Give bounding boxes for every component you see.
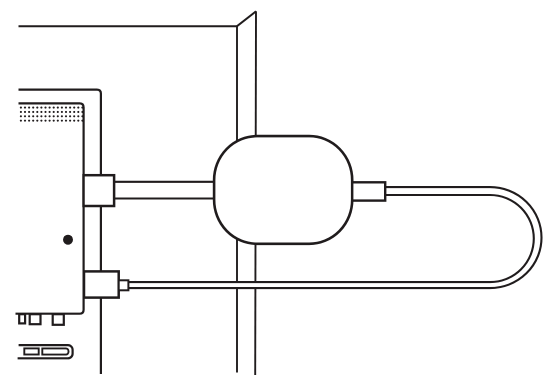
dongle cable connector — [352, 182, 385, 200]
dongle body — [214, 136, 352, 244]
tabletop edge line — [19, 25, 238, 27]
USB power plug — [119, 280, 129, 290]
vent dot grid — [20, 107, 84, 122]
TV lower USB port — [84, 271, 119, 297]
stand base right slot — [42, 348, 68, 354]
TV back panel edge — [16, 103, 84, 313]
screw hole dot — [63, 235, 73, 245]
stand base outline — [18, 345, 73, 358]
cabinet panel left edge — [236, 26, 238, 372]
power cable loop (tube with U-turn) — [127, 187, 542, 288]
stand base left slot — [24, 348, 38, 354]
TV upper HDMI port — [84, 175, 115, 206]
TV outer edge — [19, 90, 101, 374]
bottom tab 1 — [19, 314, 25, 323]
HDMI extender stem — [112, 182, 222, 199]
bottom tab 3 — [53, 314, 64, 325]
bottom tab 2 — [30, 314, 41, 324]
cabinet panel fold line (top slant) — [236, 11, 256, 26]
cabinet panel right edge — [254, 11, 257, 375]
